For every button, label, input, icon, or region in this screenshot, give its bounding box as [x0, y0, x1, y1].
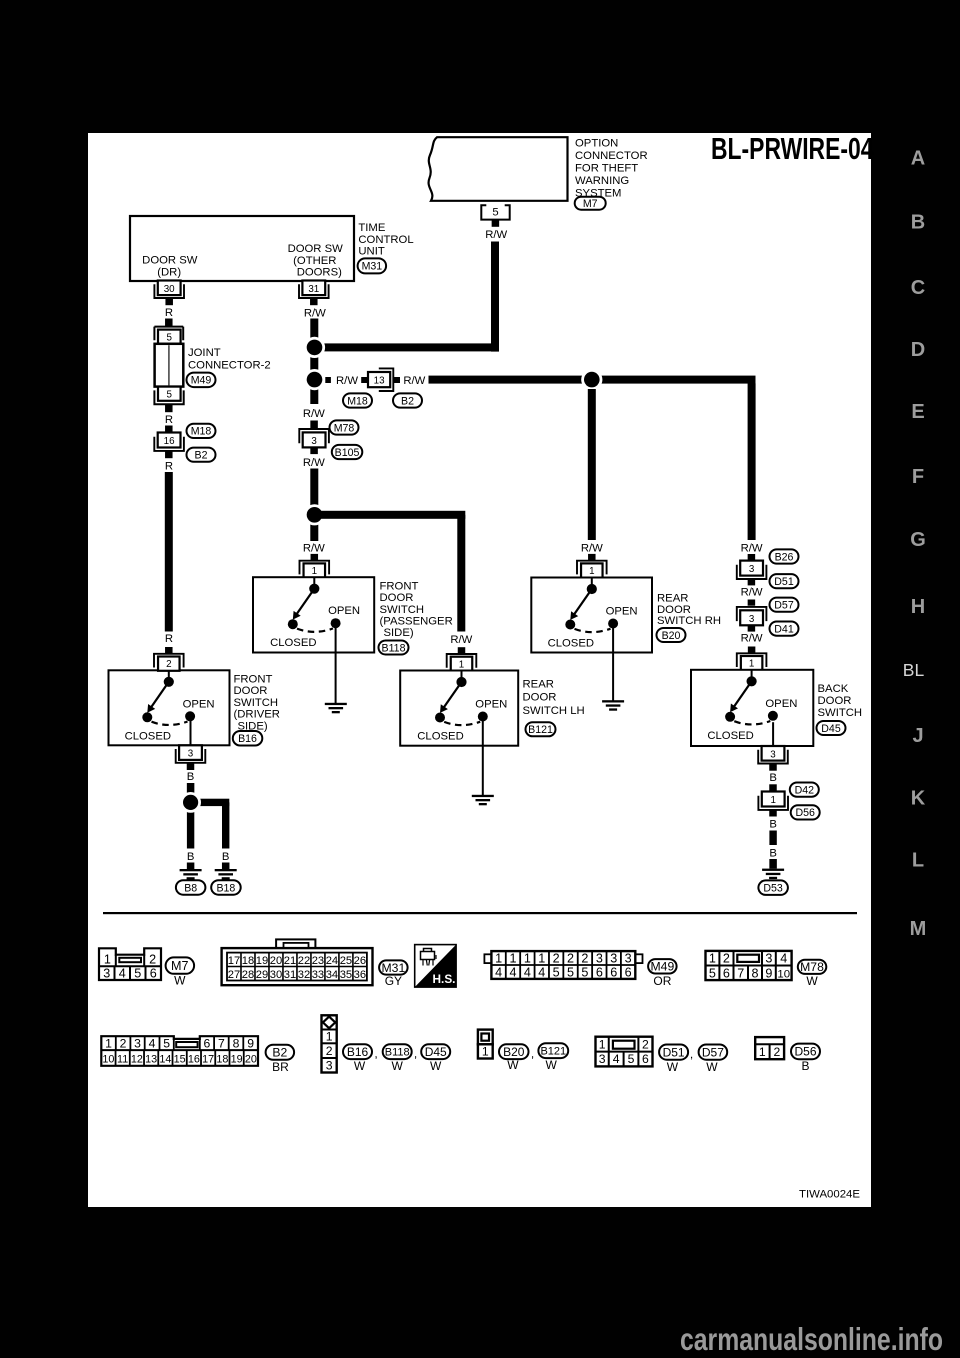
connector oval M7 [575, 197, 606, 210]
svg-text:4: 4 [613, 1052, 620, 1066]
stub before connector 13 [361, 377, 367, 383]
svg-text:25: 25 [340, 955, 352, 967]
pin 31 of M31 [302, 281, 325, 296]
svg-text:17: 17 [202, 1054, 214, 1066]
svg-text:E: E [911, 401, 924, 423]
svg-text:5: 5 [134, 967, 141, 981]
legend connector D56 pin layout [755, 1037, 784, 1059]
svg-text:B20: B20 [503, 1045, 525, 1059]
svg-text:5: 5 [166, 333, 172, 344]
svg-text:22: 22 [298, 955, 310, 967]
svg-text:SIDE): SIDE) [384, 627, 414, 639]
svg-text:1: 1 [538, 951, 545, 965]
connector oval D57 (right column) [770, 598, 799, 612]
svg-text:CONNECTOR-2: CONNECTOR-2 [188, 360, 271, 372]
svg-text:1: 1 [105, 1037, 112, 1051]
svg-text:CLOSED: CLOSED [707, 730, 753, 742]
svg-text:R/W: R/W [303, 408, 325, 420]
svg-text:A: A [911, 148, 925, 170]
svg-text:3: 3 [625, 951, 632, 965]
svg-text:(PASSENGER: (PASSENGER [380, 616, 453, 628]
junction B (dot) [310, 384, 318, 404]
legend oval B20 [499, 1044, 529, 1059]
wire junction A to junction B (R/W) [310, 352, 318, 375]
pin 3 below front door switch driver side [190, 721, 192, 746]
svg-text:1: 1 [589, 566, 594, 577]
legend connector M49 pin layout [484, 954, 491, 963]
legend oval B16 [343, 1044, 372, 1059]
svg-text:20: 20 [245, 1054, 257, 1066]
svg-text:SWITCH: SWITCH [234, 697, 279, 709]
svg-text:15: 15 [174, 1054, 186, 1066]
svg-text:TIWA0024E: TIWA0024E [799, 1188, 860, 1200]
svg-text:2: 2 [723, 952, 730, 966]
svg-text:3: 3 [311, 436, 317, 447]
pin 1 above rear door switch LH [451, 657, 473, 671]
svg-text:M: M [910, 918, 927, 940]
legend connector D51/D57 pin layout [596, 1037, 653, 1067]
svg-text:,: , [531, 1047, 534, 1061]
svg-text:W: W [546, 1058, 558, 1072]
svg-text:M31: M31 [382, 961, 406, 975]
svg-text:D: D [911, 339, 925, 361]
svg-text:7: 7 [218, 1037, 225, 1051]
legend oval D56 [791, 1044, 820, 1060]
svg-text:18: 18 [216, 1054, 228, 1066]
back door switch box [691, 670, 813, 746]
svg-text:D57: D57 [702, 1045, 724, 1059]
legend oval D57 [699, 1045, 728, 1060]
legend oval B121 [538, 1043, 568, 1058]
svg-text:23: 23 [312, 955, 324, 967]
svg-text:R/W: R/W [303, 457, 325, 469]
svg-text:W: W [507, 1058, 519, 1072]
inline connector 3 (B26 to D51) [740, 561, 763, 576]
svg-text:M78: M78 [800, 960, 824, 974]
wire junction D right to rear door switch LH branch [318, 511, 465, 519]
svg-text:4: 4 [780, 952, 787, 966]
wire segment to ground D53 [769, 831, 776, 846]
svg-text:C: C [911, 277, 925, 299]
svg-text:1: 1 [482, 1044, 489, 1058]
svg-text:32: 32 [298, 969, 310, 981]
svg-text:1: 1 [495, 951, 502, 965]
svg-text:3: 3 [134, 1037, 141, 1051]
front door switch passenger side symbol [313, 577, 315, 585]
svg-text:6: 6 [723, 966, 730, 980]
svg-text:4: 4 [509, 965, 516, 979]
svg-text:BL: BL [903, 660, 925, 680]
svg-text:1: 1 [709, 952, 716, 966]
svg-text:M18: M18 [347, 395, 368, 407]
svg-text:,: , [414, 1047, 417, 1061]
svg-text:B105: B105 [335, 447, 360, 459]
inline connector 13 (M18 to B2 horizontal) [368, 372, 390, 387]
svg-text:2: 2 [120, 1037, 127, 1051]
svg-text:M7: M7 [583, 198, 598, 210]
svg-text:6: 6 [204, 1037, 211, 1051]
svg-text:2: 2 [774, 1045, 781, 1059]
wire conn3 down to junction D [310, 469, 318, 507]
svg-text:M78: M78 [334, 422, 355, 434]
wire rear LH OPEN to ground [482, 721, 484, 796]
svg-text:DOORS): DOORS) [297, 267, 342, 279]
svg-text:JOINT: JOINT [188, 347, 221, 359]
svg-text:CLOSED: CLOSED [548, 638, 594, 650]
svg-text:FOR THEFT: FOR THEFT [575, 162, 638, 174]
svg-text:2: 2 [149, 953, 156, 967]
connector oval B2 (conn 16) [187, 448, 216, 462]
legend oval M49 [648, 959, 677, 973]
svg-text:12: 12 [131, 1054, 143, 1066]
svg-text:3: 3 [749, 564, 755, 575]
svg-text:9: 9 [765, 966, 772, 980]
svg-text:H: H [911, 596, 925, 618]
svg-text:5: 5 [492, 206, 498, 218]
connector oval D42 [790, 783, 819, 797]
connector oval B105 (conn 3 mid) [332, 445, 363, 459]
svg-text:3: 3 [326, 1059, 333, 1073]
svg-text:D45: D45 [821, 723, 841, 735]
legend H.S. view icon [415, 945, 456, 988]
svg-text:B118: B118 [382, 642, 406, 654]
svg-text:6: 6 [625, 965, 632, 979]
svg-text:R/W: R/W [336, 375, 358, 387]
svg-text:D56: D56 [794, 1045, 816, 1059]
svg-text:R/W: R/W [485, 229, 507, 241]
inline connector 1 (D42 to D56) [762, 792, 785, 807]
svg-text:1: 1 [326, 1029, 333, 1043]
svg-text:FRONT: FRONT [234, 674, 273, 686]
svg-text:WARNING: WARNING [575, 175, 629, 187]
inline connector 16 (M18 to B2) [158, 433, 181, 448]
pin 1 above front door switch passenger side [304, 563, 326, 577]
svg-text:27: 27 [228, 969, 240, 981]
svg-text:H.S.: H.S. [433, 972, 456, 986]
rear door switch LH box [400, 671, 518, 746]
wire conn13 to junction C and to right column (R/W) [429, 376, 756, 384]
connector oval M78 (conn 3 mid) [330, 420, 359, 434]
svg-text:3: 3 [765, 952, 772, 966]
rear door switch LH symbol [461, 671, 463, 679]
svg-text:14: 14 [159, 1054, 171, 1066]
svg-text:2: 2 [567, 951, 574, 965]
ground junction dot [187, 808, 194, 849]
svg-text:DOOR: DOOR [818, 695, 852, 707]
joint connector-2 body [155, 344, 184, 387]
legend connector B20/B121 pin layout [478, 1030, 493, 1045]
svg-text:W: W [806, 974, 818, 988]
svg-text:D51: D51 [774, 576, 794, 588]
wire pin30 to joint connector [165, 319, 173, 327]
stub after connector 13 [394, 377, 400, 383]
svg-text:24: 24 [326, 955, 338, 967]
svg-text:W: W [174, 974, 186, 988]
ground (rear door switch LH) [472, 795, 494, 797]
svg-text:30: 30 [164, 284, 175, 295]
svg-text:1: 1 [749, 659, 754, 670]
ground D53 [769, 859, 777, 869]
junction D (dot) [310, 524, 318, 542]
svg-text:(OTHER: (OTHER [293, 255, 336, 267]
legend oval D45 (legend) [421, 1044, 450, 1059]
legend connector B16/B118/D45 pin layout [322, 1015, 337, 1072]
svg-text:B: B [187, 851, 195, 863]
svg-text:BL-PRWIRE-04: BL-PRWIRE-04 [711, 131, 874, 166]
svg-text:R: R [165, 633, 173, 645]
pin 3 below back door switch [772, 722, 774, 746]
connector oval B18 [211, 880, 241, 895]
wire passenger switch OPEN to ground [335, 628, 337, 704]
pin 1 above back door switch [741, 656, 763, 670]
svg-text:9: 9 [247, 1037, 254, 1051]
svg-text:18: 18 [242, 955, 254, 967]
svg-text:W: W [667, 1060, 679, 1074]
svg-text:B18: B18 [216, 882, 235, 894]
ground B18 [222, 863, 230, 871]
svg-text:M49: M49 [191, 375, 212, 387]
svg-text:3: 3 [599, 1052, 606, 1066]
svg-text:13: 13 [145, 1054, 157, 1066]
connector oval D53 [758, 880, 788, 895]
legend connector M7 pin layout [99, 948, 161, 980]
svg-text:D41: D41 [774, 623, 794, 635]
svg-text:W: W [392, 1059, 404, 1073]
connector oval M18 (conn 13) [343, 393, 372, 407]
svg-text:R/W: R/W [741, 587, 763, 599]
svg-text:,: , [690, 1047, 693, 1061]
svg-text:10: 10 [102, 1054, 114, 1066]
svg-text:B: B [911, 212, 925, 234]
svg-text:5: 5 [709, 966, 716, 980]
front door switch driver side symbol [168, 670, 170, 678]
svg-text:28: 28 [242, 969, 254, 981]
svg-text:BACK: BACK [818, 683, 849, 695]
junction A (dot) [304, 337, 325, 358]
svg-text:1: 1 [459, 659, 464, 670]
svg-text:1: 1 [509, 951, 516, 965]
svg-text:5: 5 [163, 1037, 170, 1051]
svg-text:11: 11 [117, 1054, 128, 1066]
svg-text:B: B [769, 772, 777, 784]
legend oval M7 [166, 957, 195, 973]
svg-text:3: 3 [749, 614, 755, 625]
ground (passenger switch) [325, 703, 347, 705]
svg-text:W: W [354, 1059, 366, 1073]
svg-text:2: 2 [581, 951, 588, 965]
svg-text:2: 2 [553, 951, 560, 965]
diagram white panel [88, 133, 871, 1207]
svg-text:R/W: R/W [304, 308, 326, 320]
svg-text:6: 6 [150, 967, 157, 981]
svg-text:8: 8 [233, 1037, 240, 1051]
connector oval M18 (conn 16) [187, 424, 216, 438]
legend connector M31 pin layout [276, 939, 315, 948]
svg-text:M18: M18 [191, 426, 212, 438]
svg-text:B121: B121 [540, 1046, 566, 1058]
svg-text:20: 20 [270, 955, 282, 967]
svg-text:R: R [165, 461, 173, 473]
svg-text:R/W: R/W [741, 543, 763, 555]
svg-text:D45: D45 [425, 1045, 447, 1059]
svg-text:4: 4 [149, 1037, 156, 1051]
svg-text:17: 17 [228, 955, 240, 967]
svg-text:4: 4 [495, 965, 502, 979]
svg-text:6: 6 [642, 1052, 649, 1066]
svg-text:29: 29 [256, 969, 268, 981]
svg-text:CLOSED: CLOSED [270, 637, 316, 649]
svg-text:SWITCH LH: SWITCH LH [523, 705, 585, 717]
svg-text:31: 31 [284, 969, 296, 981]
wire rear RH OPEN to ground [612, 628, 614, 701]
connector oval B121 [526, 722, 556, 736]
svg-text:2: 2 [326, 1044, 333, 1058]
svg-text:R: R [165, 414, 173, 426]
svg-text:CLOSED: CLOSED [417, 731, 463, 743]
wire to connector D42/D56 [769, 784, 777, 790]
wire junction C down to rear door switch RH [588, 389, 596, 540]
svg-text:1: 1 [759, 1045, 766, 1059]
svg-text:M31: M31 [362, 261, 383, 273]
svg-text:B2: B2 [401, 395, 414, 407]
unit M31 time control unit box [130, 216, 354, 281]
svg-text:2: 2 [166, 659, 171, 670]
branch stub right of junction B [325, 377, 331, 383]
svg-text:G: G [910, 529, 926, 551]
wire joint connector to connector 16 [165, 426, 173, 433]
svg-text:3: 3 [610, 951, 617, 965]
connector oval M31 [358, 258, 387, 273]
svg-text:(DR): (DR) [157, 266, 181, 278]
svg-text:OPEN: OPEN [328, 605, 360, 617]
svg-text:BR: BR [272, 1060, 289, 1074]
svg-text:B16: B16 [238, 733, 257, 745]
svg-text:B118: B118 [385, 1047, 410, 1059]
svg-text:B8: B8 [184, 882, 197, 894]
svg-text:R/W: R/W [303, 543, 325, 555]
separator line [103, 912, 857, 914]
wire conn16 down to front door switch driver side [165, 472, 173, 632]
svg-text:19: 19 [231, 1054, 243, 1066]
svg-text:8: 8 [751, 966, 758, 980]
svg-text:M49: M49 [651, 960, 675, 974]
svg-text:6: 6 [610, 965, 617, 979]
svg-text:1: 1 [312, 566, 317, 577]
svg-text:OPEN: OPEN [475, 699, 507, 711]
svg-text:3: 3 [188, 749, 194, 760]
svg-text:R/W: R/W [581, 543, 603, 555]
svg-text:1: 1 [104, 953, 111, 967]
svg-text:34: 34 [326, 969, 338, 981]
svg-text:16: 16 [188, 1054, 200, 1066]
svg-text:W: W [430, 1059, 442, 1073]
svg-text:R/W: R/W [741, 633, 763, 645]
svg-text:M7: M7 [171, 959, 189, 973]
svg-text:31: 31 [308, 284, 319, 295]
connector oval B8 [176, 880, 206, 895]
connector oval B26 [770, 549, 799, 563]
svg-text:3: 3 [770, 749, 776, 760]
svg-text:REAR: REAR [657, 593, 688, 605]
svg-text:DOOR: DOOR [380, 592, 414, 604]
svg-text:5: 5 [567, 965, 574, 979]
joint connector-2 M49 top pin 5 [154, 326, 183, 328]
svg-text:OR: OR [653, 974, 671, 988]
svg-text:DOOR: DOOR [523, 692, 557, 704]
pin 2 above front door switch driver side [158, 657, 180, 671]
connector oval M49 (joint connector) [187, 373, 216, 388]
ground (rear door switch RH) [602, 700, 624, 702]
svg-text:CONTROL: CONTROL [358, 234, 413, 246]
connector oval B20 [657, 628, 686, 642]
legend connector B2 pin layout [101, 1036, 258, 1066]
legend oval M78 [798, 960, 827, 974]
svg-text:GY: GY [385, 974, 402, 988]
svg-text:DOOR: DOOR [657, 604, 691, 616]
svg-text:R/W: R/W [403, 375, 425, 387]
svg-text:D53: D53 [763, 882, 783, 894]
front door switch passenger side box [253, 577, 374, 652]
svg-text:K: K [911, 788, 926, 810]
svg-text:B2: B2 [195, 450, 208, 462]
connector oval D56 (wire) [791, 805, 820, 819]
svg-text:35: 35 [340, 969, 352, 981]
svg-text:REAR: REAR [523, 679, 554, 691]
svg-text:J: J [912, 725, 923, 747]
wire to ground junction [187, 783, 195, 795]
svg-text:B20: B20 [662, 630, 681, 642]
wire right column down from junction row [748, 383, 756, 540]
svg-text:1: 1 [524, 951, 531, 965]
svg-text:B26: B26 [775, 551, 794, 563]
connector oval D41 [770, 622, 799, 636]
connector oval B16 [233, 731, 262, 746]
pin 5 of M7 [481, 205, 509, 219]
svg-text:OPEN: OPEN [606, 606, 638, 618]
svg-text:5: 5 [553, 965, 560, 979]
unit M7 option connector for theft warning system (torn box) [429, 137, 568, 201]
inline connector 3 (M78 to B105) [303, 432, 326, 447]
svg-text:B16: B16 [347, 1045, 369, 1059]
svg-text:1: 1 [770, 795, 775, 806]
svg-text:OPEN: OPEN [765, 698, 797, 710]
svg-text:36: 36 [354, 969, 366, 981]
svg-text:CLOSED: CLOSED [125, 730, 171, 742]
svg-text:F: F [912, 466, 924, 488]
pin 1 above rear door switch RH [581, 563, 603, 577]
svg-text:L: L [912, 850, 924, 872]
svg-text:UNIT: UNIT [358, 246, 384, 258]
svg-text:OPTION: OPTION [575, 137, 618, 149]
svg-text:SWITCH: SWITCH [818, 707, 863, 719]
connector oval B118 [379, 641, 409, 655]
svg-text:19: 19 [256, 955, 268, 967]
ground B8 [187, 863, 195, 871]
svg-text:4: 4 [119, 967, 126, 981]
connector oval B2 (conn 13) [393, 393, 422, 407]
svg-text:W: W [706, 1060, 718, 1074]
joint connector-2 bottom pin 5 [158, 387, 181, 401]
svg-text:5: 5 [581, 965, 588, 979]
svg-text:2: 2 [642, 1037, 649, 1051]
svg-text:4: 4 [538, 965, 545, 979]
pin 30 of M31 [158, 281, 181, 296]
svg-text:5: 5 [628, 1052, 635, 1066]
legend oval D51 [659, 1045, 688, 1060]
svg-text:D42: D42 [795, 784, 815, 796]
svg-text:R: R [165, 307, 173, 319]
svg-text:B: B [769, 848, 777, 860]
